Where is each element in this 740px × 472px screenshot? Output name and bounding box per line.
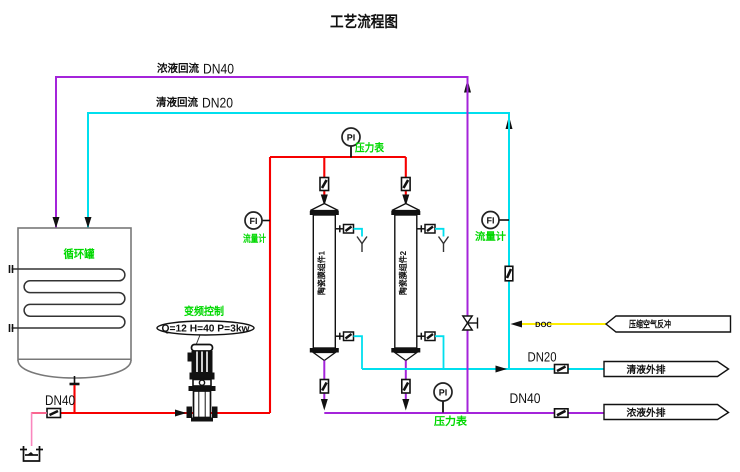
arrow up into cyan return line bbox=[506, 116, 513, 129]
svg-text:PI: PI bbox=[439, 388, 448, 398]
arrow into pump suction bbox=[175, 410, 187, 417]
valve on module 2 feed bbox=[402, 178, 411, 191]
tank T1 circulation tank shell bbox=[18, 228, 131, 378]
svg-text:Q=12 H=40 P=3kw: Q=12 H=40 P=3kw bbox=[162, 324, 250, 335]
banner 浓液外排 bbox=[604, 405, 729, 420]
drain vessel bbox=[20, 446, 43, 461]
wire cyan permeate return (top) bbox=[88, 113, 509, 228]
wire purple concentrate return (top) bbox=[56, 77, 468, 228]
svg-text:清液外排: 清液外排 bbox=[627, 364, 666, 376]
svg-text:DN20: DN20 bbox=[528, 350, 557, 365]
wire purple riser bbox=[467, 80, 469, 413]
flow meter FI left bbox=[245, 212, 270, 229]
svg-text:DOC: DOC bbox=[535, 320, 552, 329]
module 2 bottom side port valve bbox=[417, 332, 435, 341]
arrow into tank (cyan return) bbox=[85, 217, 92, 228]
tank side port upper bbox=[10, 265, 13, 273]
svg-text:陶瓷膜组件1: 陶瓷膜组件1 bbox=[316, 251, 326, 295]
arrow module 1 drop into manifold bbox=[321, 399, 328, 411]
wire red suction main bbox=[32, 412, 271, 414]
pressure gauge PI top bbox=[342, 128, 360, 158]
arrow into module 1 bbox=[321, 195, 328, 207]
valve on cyan riser bbox=[505, 266, 513, 281]
coil inside tank bbox=[12, 269, 125, 328]
svg-text:工艺流程图: 工艺流程图 bbox=[330, 13, 398, 31]
banner 压缩空气反冲 bbox=[606, 316, 731, 332]
module 1 bottom side port valve bbox=[335, 332, 353, 341]
svg-text:浓液回流: 浓液回流 bbox=[157, 62, 199, 75]
svg-text:陶瓷膜组件2: 陶瓷膜组件2 bbox=[398, 251, 408, 295]
globe valve on purple riser bbox=[463, 316, 478, 330]
arrow module 2 drop into manifold bbox=[402, 399, 409, 411]
svg-text:压缩空气反冲: 压缩空气反冲 bbox=[629, 319, 671, 331]
wire cyan riser bbox=[508, 116, 510, 369]
valve V1 on suction line bbox=[47, 409, 61, 418]
svg-text:清液回流: 清液回流 bbox=[156, 96, 198, 109]
wire pink drain bbox=[32, 413, 47, 446]
arrow up into purple return line bbox=[464, 80, 471, 93]
svg-text:流量计: 流量计 bbox=[475, 230, 506, 243]
svg-text:DN20: DN20 bbox=[202, 95, 233, 111]
valve on module 2 bottom drop bbox=[402, 380, 410, 394]
svg-text:FI: FI bbox=[487, 216, 495, 226]
valve on module 1 bottom drop bbox=[320, 380, 328, 394]
wire cyan permeate manifold bbox=[362, 368, 604, 370]
wire cyan module 2 permeate bbox=[435, 336, 444, 369]
valve on module 1 feed bbox=[320, 178, 329, 191]
wire red tank outlet drop bbox=[73, 385, 75, 413]
wire red drop to module 1 bbox=[323, 157, 325, 197]
wire purple concentrate manifold bbox=[324, 412, 604, 414]
svg-text:DN40: DN40 bbox=[203, 61, 234, 77]
svg-text:压力表: 压力表 bbox=[434, 415, 468, 428]
svg-text:DN40: DN40 bbox=[45, 392, 75, 408]
tank bottom nozzle bbox=[70, 376, 80, 384]
module 2 top side port valve bbox=[417, 225, 435, 234]
wire cyan module 1 vent bbox=[354, 229, 363, 237]
svg-text:流量计: 流量计 bbox=[243, 233, 266, 245]
arrow into tank (purple return) bbox=[53, 217, 60, 228]
svg-text:压力表: 压力表 bbox=[355, 142, 385, 155]
wire red header bbox=[270, 156, 406, 158]
tank side port lower bbox=[10, 324, 13, 332]
wire red drop to module 2 bbox=[405, 157, 407, 197]
membrane module M1 shell bbox=[310, 204, 339, 361]
module 1 top side port valve bbox=[335, 225, 353, 234]
wire cyan module 1 permeate bbox=[354, 336, 363, 369]
valve on DN20 outfall bbox=[555, 365, 569, 374]
wire red riser bbox=[269, 157, 271, 413]
pump P1 vertical multistage pump bbox=[187, 335, 218, 422]
flow meter FI right bbox=[482, 212, 509, 229]
wire purple module 2 bottom drop bbox=[405, 361, 407, 401]
pressure gauge PI bottom bbox=[434, 383, 452, 413]
wire cyan module 2 vent bbox=[435, 229, 444, 237]
pump spec ellipse Q=12 H=40 P=3kw bbox=[157, 321, 254, 335]
vent funnel Y module 2 bbox=[439, 237, 449, 253]
svg-text:变频控制: 变频控制 bbox=[184, 305, 224, 318]
wire yellow backflush bbox=[522, 323, 607, 325]
banner 清液外排 bbox=[604, 362, 729, 377]
wire purple module 1 bottom drop bbox=[323, 361, 325, 401]
svg-text:FI: FI bbox=[250, 216, 258, 226]
arrow on cyan manifold bbox=[496, 366, 508, 373]
arrow into module 2 bbox=[402, 195, 409, 207]
svg-text:PI: PI bbox=[347, 133, 356, 143]
svg-text:循环罐: 循环罐 bbox=[64, 248, 95, 261]
valve on DN40 outfall bbox=[555, 409, 569, 418]
membrane module M2 shell bbox=[391, 204, 420, 361]
arrow backflush into cyan riser bbox=[511, 321, 523, 328]
svg-text:浓液外排: 浓液外排 bbox=[627, 407, 666, 419]
svg-text:DN40: DN40 bbox=[510, 390, 541, 406]
vent funnel Y module 1 bbox=[357, 237, 367, 253]
